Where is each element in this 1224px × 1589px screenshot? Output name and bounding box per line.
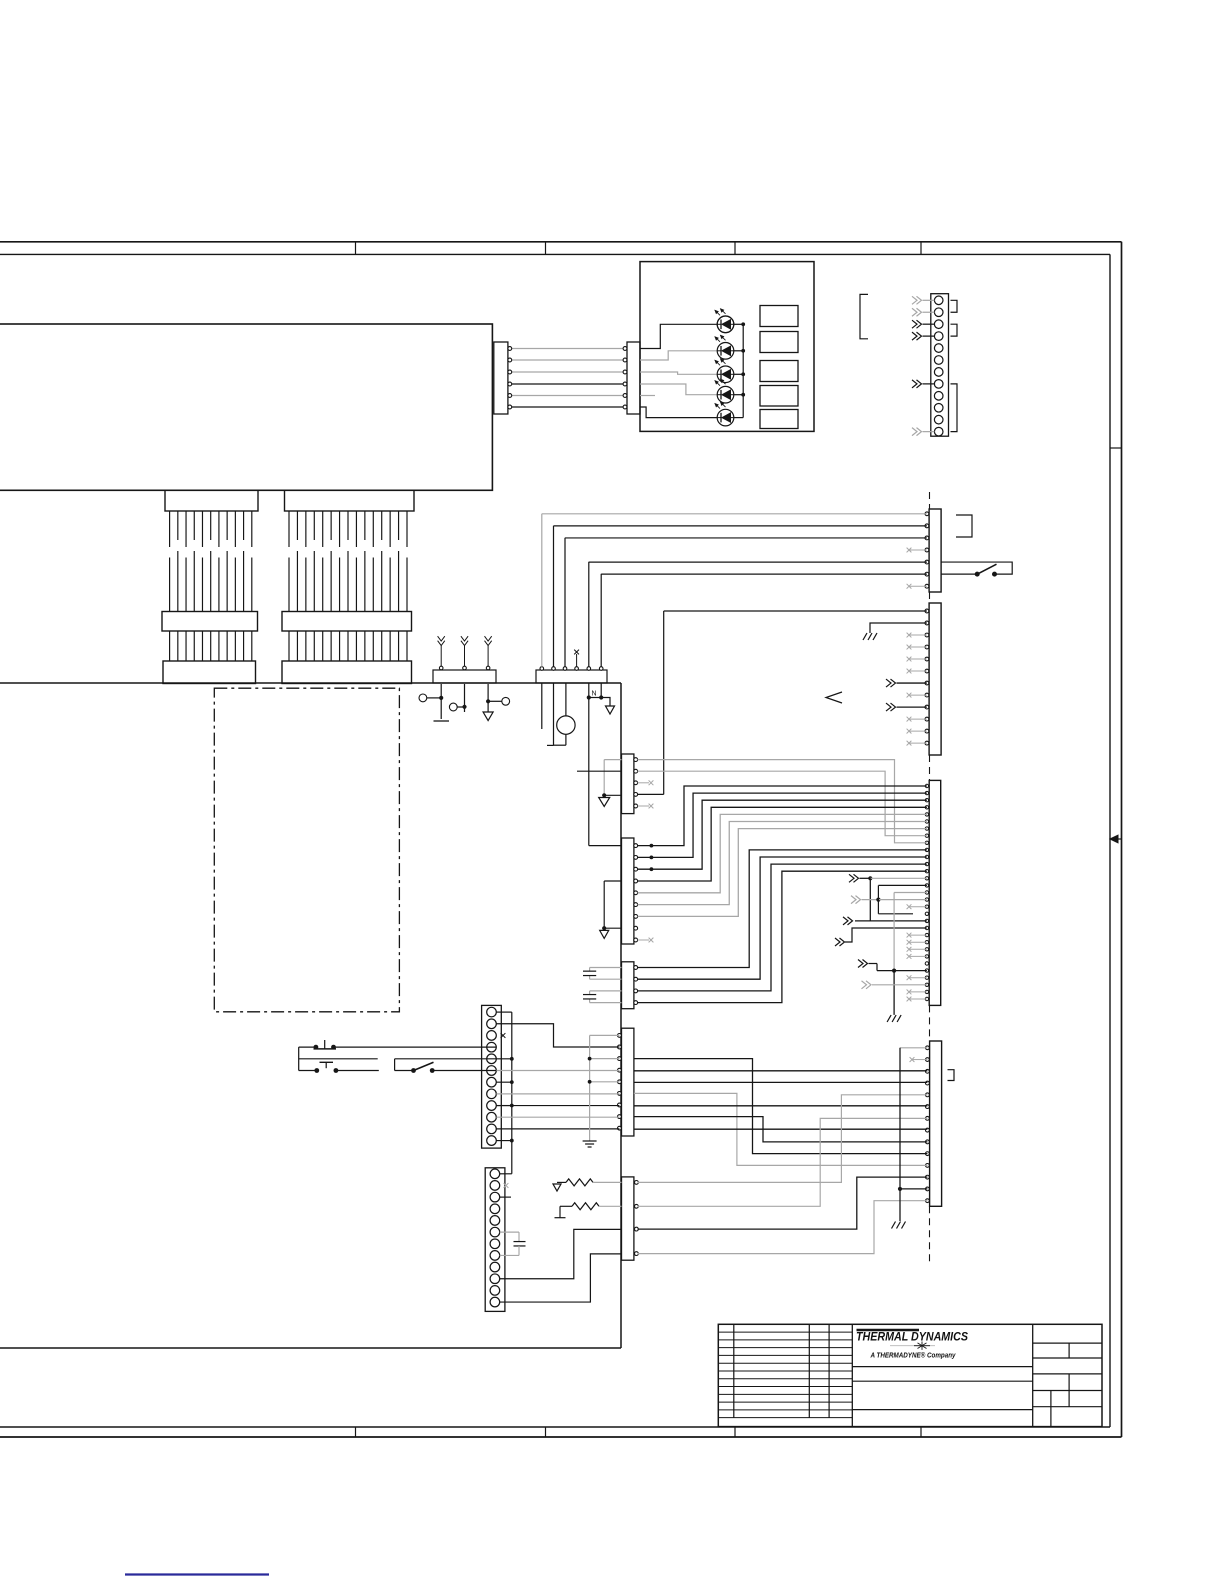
svg-text:THERMAL DYNAMICS: THERMAL DYNAMICS [856, 1332, 968, 1344]
svg-text:A THERMADYNE® Company: A THERMADYNE® Company [870, 1351, 957, 1360]
svg-text:N: N [592, 691, 597, 698]
